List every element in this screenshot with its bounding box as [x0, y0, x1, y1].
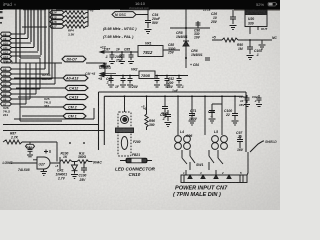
svg-text:52%: 52%: [256, 2, 264, 7]
svg-text:16:10: 16:10: [135, 1, 146, 6]
svg-text:˅: ˅: [14, 3, 16, 7]
svg-text:chromebook.com: chromebook.com: [129, 6, 149, 10]
svg-text:iPad: iPad: [3, 2, 12, 7]
